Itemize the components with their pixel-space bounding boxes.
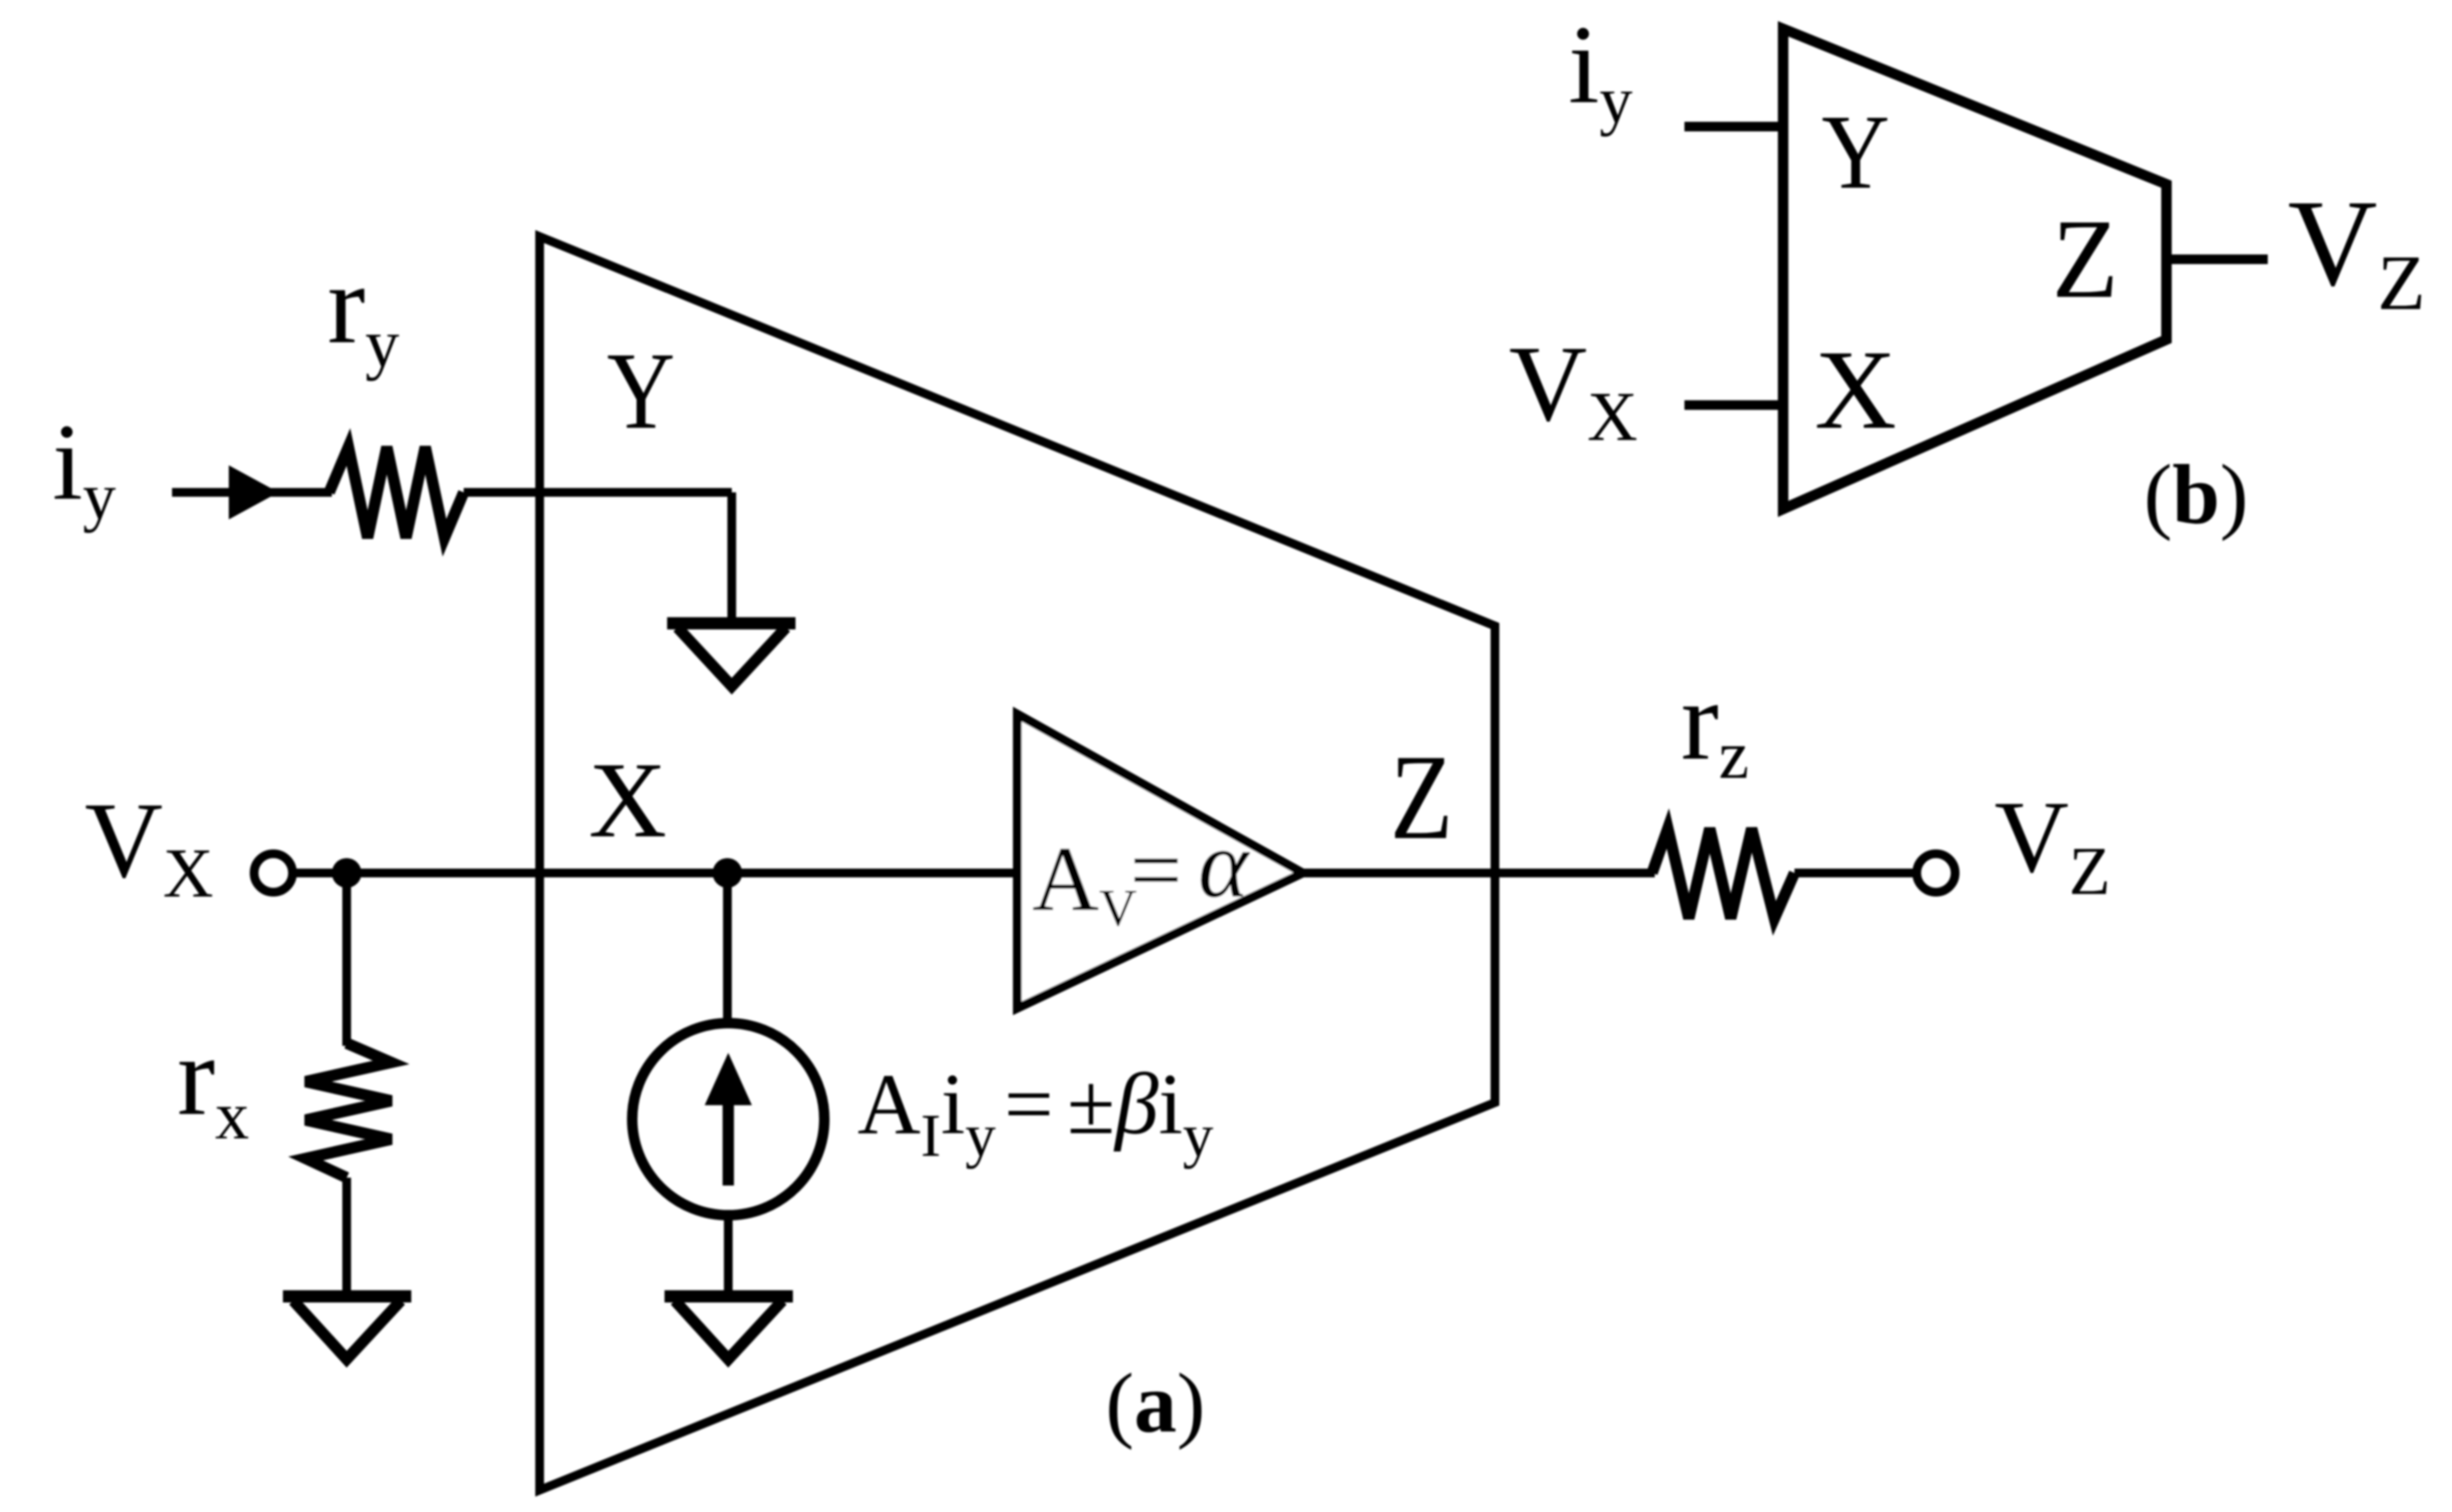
wire: iy stub into Y (b)	[1684, 122, 1783, 132]
wire: ry to Y node	[464, 488, 732, 497]
node VX open terminal	[254, 854, 293, 892]
wire: main rail from VX terminal to buffer	[293, 869, 1017, 877]
svg-text:α: α	[1198, 811, 1250, 918]
svg-text:X: X	[589, 740, 667, 860]
wire: rz to VZ terminal	[1794, 869, 1914, 877]
node A junction dot	[332, 858, 362, 888]
wire: iy input lead	[172, 488, 332, 497]
arrowhead on iy wire	[229, 465, 279, 519]
resistor rz	[1652, 828, 1794, 918]
svg-text:Z: Z	[2052, 196, 2118, 322]
wire: rx to ground	[342, 1178, 351, 1296]
svg-text:=: =	[1130, 819, 1182, 921]
svg-text:Y: Y	[1822, 93, 1890, 211]
ground (rx branch)	[283, 1296, 411, 1359]
wire: down from node A to rx	[342, 873, 351, 1046]
wire: Z output stub (b)	[2166, 255, 2268, 265]
svg-text:Y: Y	[607, 331, 675, 452]
wire: buffer output to rz	[1303, 869, 1655, 877]
wire: Y node down to ground	[727, 492, 736, 623]
ground (Y branch)	[667, 623, 796, 686]
resistor ry	[329, 447, 464, 538]
svg-text:=: =	[1004, 1055, 1053, 1152]
svg-text:Z: Z	[1390, 730, 1453, 865]
trapezoid symbol (b)	[1783, 29, 2166, 509]
node VZ open terminal	[1917, 854, 1955, 892]
wire: VX stub into X (b)	[1684, 401, 1783, 410]
trapezoid body of current conveyor (a)	[540, 237, 1495, 1490]
wire: current source to ground	[724, 1215, 733, 1296]
svg-text:X: X	[1815, 327, 1897, 453]
node B junction dot	[713, 858, 742, 888]
ground (current source branch)	[665, 1296, 793, 1359]
svg-text:(a): (a)	[1105, 1357, 1205, 1451]
wire: down from node B to current source	[723, 873, 732, 1021]
resistor rx	[306, 1043, 391, 1178]
svg-text:(b): (b)	[2144, 448, 2249, 542]
current source AIiy	[632, 1023, 824, 1215]
op-amp buffer U1 (AV = alpha)	[1017, 714, 1303, 1008]
